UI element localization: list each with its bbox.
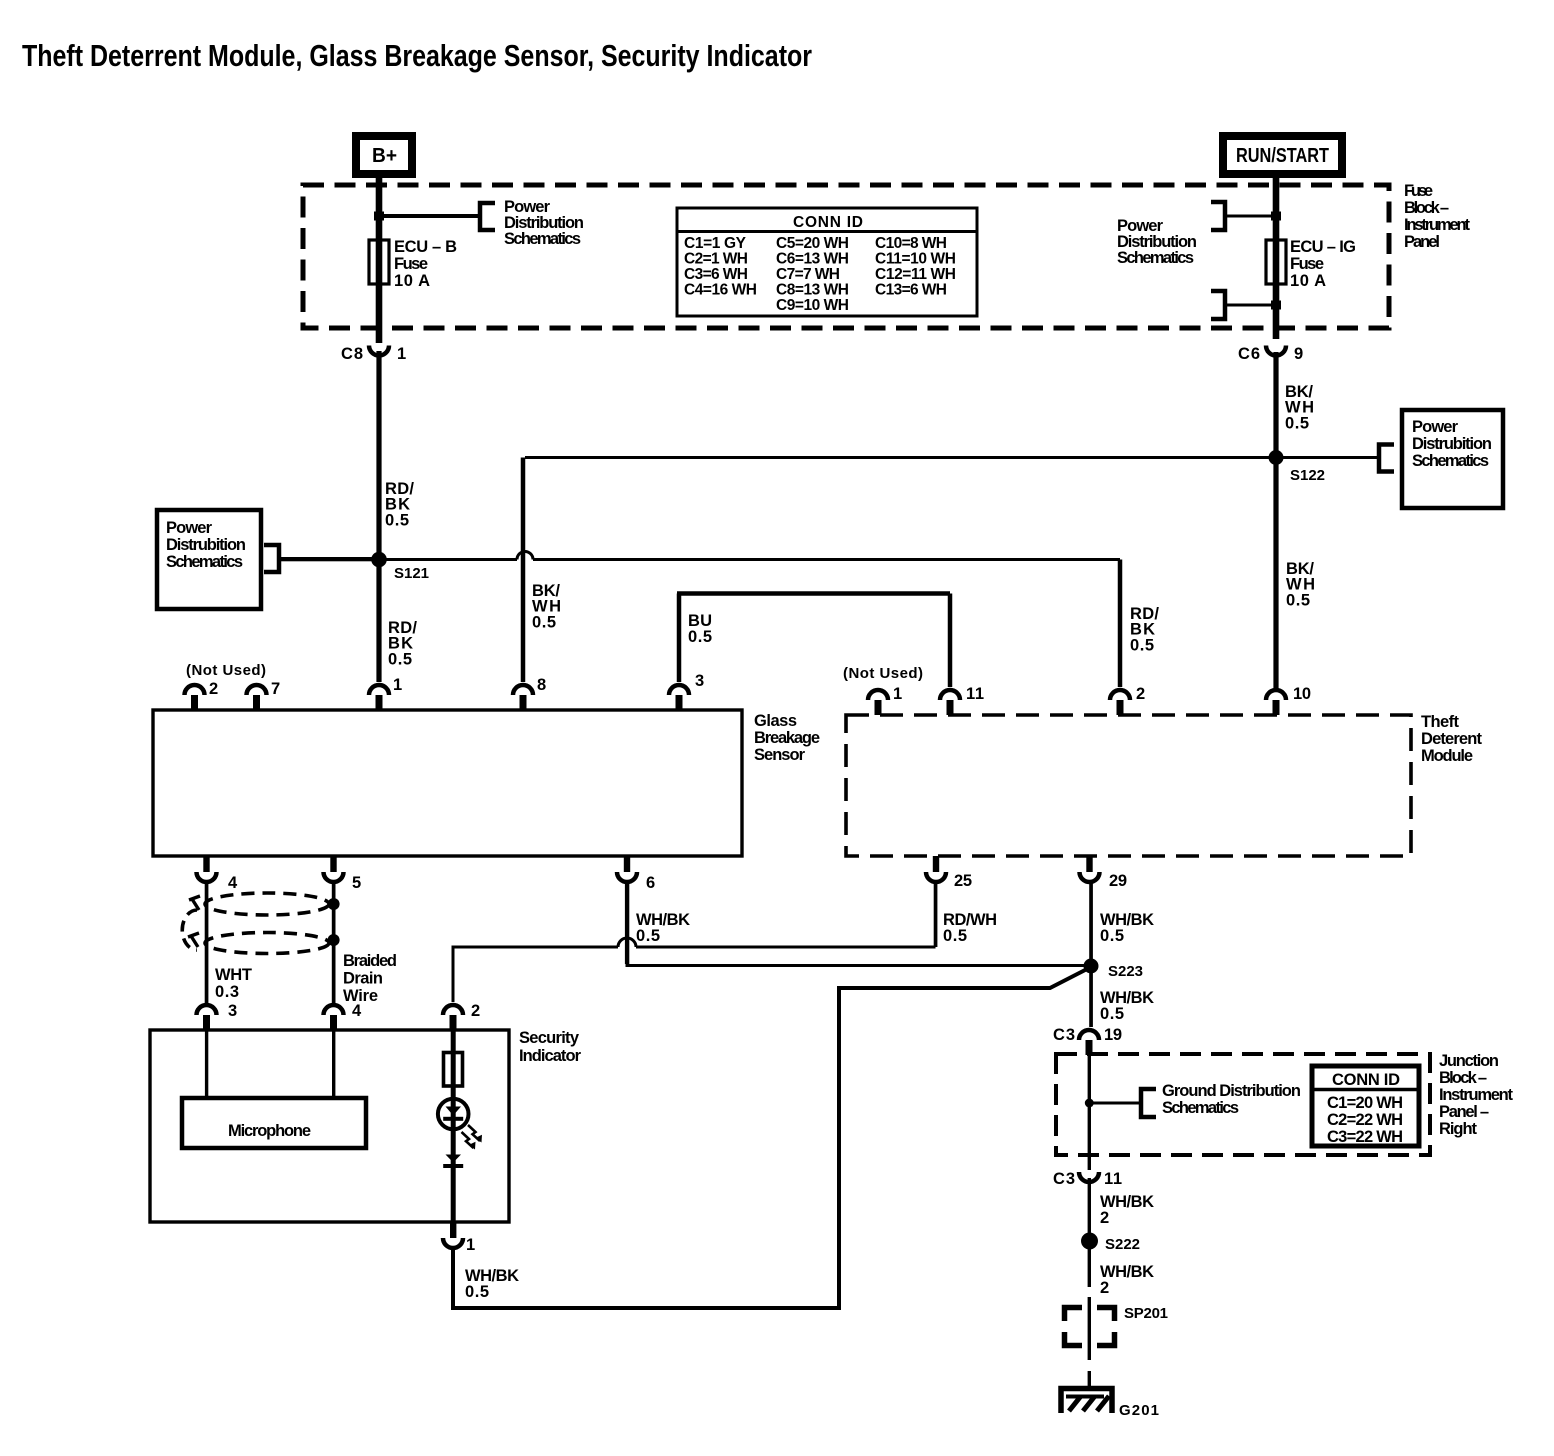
pin 4 security top: [324, 1002, 363, 1030]
svg-text:Microphone: Microphone: [228, 1122, 311, 1140]
svg-text:1: 1: [466, 1236, 475, 1254]
svg-text:C6=13 WH: C6=13 WH: [776, 251, 849, 268]
shield dashed loop upper: [205, 893, 329, 915]
wire RD/BK corner down to TDM pin 2: [1118, 560, 1123, 688]
wire hop arc at BK/WH crossing: [517, 552, 533, 560]
label RD/BK 0.5 (below S121): [388, 619, 417, 669]
svg-text:8: 8: [537, 676, 546, 694]
pin 6 glass bottom: [617, 856, 655, 892]
svg-text:C1=1 GY: C1=1 GY: [684, 235, 747, 252]
svg-text:B+: B+: [372, 145, 397, 167]
label power distribution schematics (top left): [504, 198, 584, 248]
svg-text:Theft: Theft: [1421, 713, 1460, 731]
pin 8 glass top: [513, 676, 546, 710]
svg-text:WHT: WHT: [215, 966, 252, 984]
svg-text:C11=10 WH: C11=10 WH: [875, 251, 956, 268]
svg-text:C8: C8: [341, 345, 363, 363]
svg-text:C13=6 WH: C13=6 WH: [875, 282, 947, 299]
conn id table (fuse block): [677, 208, 977, 316]
node junction dot in junction block: [1085, 1099, 1094, 1108]
wire B+ feed vertical: [376, 174, 383, 343]
svg-text:Fuse: Fuse: [1404, 182, 1433, 200]
connector C3 pin 11: [1053, 1170, 1122, 1188]
theft deterent module dashed box: [846, 715, 1411, 856]
wire BK/WH C6 to S122: [1273, 352, 1278, 458]
wire glass pin 4 to security pin 3: [205, 880, 209, 1003]
label ECU-B fuse 10A: [394, 238, 457, 290]
label WH/BK 0.5 (below S223): [1100, 989, 1154, 1023]
svg-text:11: 11: [1104, 1170, 1122, 1188]
label RD/BK 0.5 (above TDM pin 2): [1130, 605, 1159, 655]
svg-text:ECU – B: ECU – B: [394, 238, 457, 256]
wire security pin 2 through LED chain to pin 1: [451, 1030, 456, 1222]
svg-text:0.5: 0.5: [385, 512, 409, 530]
fuse block instrument panel dashed box: [303, 185, 1389, 328]
svg-text:1: 1: [893, 685, 902, 703]
label BK/WH 0.5 (above glass pin 8): [532, 582, 561, 632]
svg-text:Panel –: Panel –: [1439, 1103, 1489, 1121]
node S122 junction: [1269, 450, 1284, 465]
svg-text:C1=20 WH: C1=20 WH: [1327, 1094, 1403, 1112]
svg-text:0.3: 0.3: [215, 983, 239, 1001]
wire BU corner down to TDM pin 11: [948, 594, 953, 688]
shield dashed loop lower: [205, 933, 329, 954]
svg-text:1: 1: [397, 345, 406, 363]
svg-text:Schematics: Schematics: [1162, 1099, 1239, 1117]
svg-text:11: 11: [966, 685, 984, 703]
label braided drain wire: [343, 952, 397, 1005]
svg-text:0.5: 0.5: [388, 651, 412, 669]
microphone box: [182, 1098, 366, 1148]
svg-text:2: 2: [1136, 685, 1145, 703]
wire RD/BK S121 to glass pin 1: [376, 559, 381, 682]
wire BU horizontal to TDM pin 11 corner: [677, 591, 950, 596]
label junction block instrument panel right: [1439, 1052, 1514, 1138]
node S223 junction: [1084, 959, 1099, 974]
fuse ECU-B: [369, 240, 389, 284]
junction block dashed box: [1056, 1054, 1430, 1155]
label BU 0.5: [688, 612, 712, 646]
glass breakage sensor box: [153, 710, 742, 856]
svg-text:C3: C3: [1053, 1026, 1075, 1044]
svg-text:C2=1 WH: C2=1 WH: [684, 251, 748, 268]
svg-text:C12=11 WH: C12=11 WH: [875, 266, 956, 283]
svg-text:Block –: Block –: [1404, 199, 1449, 217]
node junction nub lower on RUN feed: [1271, 301, 1281, 310]
svg-text:Distrubition: Distrubition: [1412, 435, 1492, 453]
svg-text:Fuse: Fuse: [1290, 255, 1324, 273]
pin 4 glass bottom: [197, 856, 239, 892]
shield left dashed arc: [182, 910, 197, 950]
svg-text:0.5: 0.5: [1285, 415, 1309, 433]
svg-text:10 A: 10 A: [1290, 272, 1326, 290]
svg-text:Glass: Glass: [754, 712, 797, 730]
svg-text:S222: S222: [1105, 1236, 1140, 1253]
bracket power distrubition schematics (S122): [1379, 445, 1394, 472]
wire hop arc over pin 6 wire: [618, 938, 636, 947]
svg-text:CONN ID: CONN ID: [793, 214, 863, 231]
svg-text:Indicator: Indicator: [519, 1047, 582, 1065]
wire through SP201: [1088, 1297, 1091, 1360]
svg-text:Panel: Panel: [1404, 233, 1440, 251]
svg-text:Drain: Drain: [343, 970, 383, 988]
wire glass pin 5 to security pin 4: [332, 880, 336, 1003]
pin 3 glass top: [669, 672, 704, 710]
conn id table (junction block): [1312, 1066, 1419, 1146]
label ECU-IG fuse 10A: [1290, 238, 1356, 290]
label theft deterent module: [1421, 713, 1483, 765]
wire S122 to bracket (right): [1276, 456, 1379, 459]
svg-text:29: 29: [1109, 872, 1127, 890]
wire WH/BK glass pin 6 down: [625, 880, 629, 964]
connector C8 pin 1: [341, 345, 406, 363]
svg-text:5: 5: [352, 874, 361, 892]
pin 2 glass top (not used): [185, 680, 219, 710]
connector C3 pin 19: [1053, 1026, 1122, 1055]
fuse ECU-IG: [1266, 240, 1286, 284]
svg-text:C10=8 WH: C10=8 WH: [875, 235, 947, 252]
label power distribution schematics (top right): [1117, 217, 1197, 267]
svg-text:C9=10 WH: C9=10 WH: [776, 297, 849, 314]
node S222 splice: [1081, 1233, 1098, 1250]
svg-text:ECU – IG: ECU – IG: [1290, 238, 1356, 256]
wire bracket to S121: [279, 557, 380, 561]
label RD/BK 0.5 (above S121): [385, 480, 414, 530]
wire RD/WH horizontal with hop over pin6 wire: [453, 947, 936, 1002]
svg-text:0.5: 0.5: [943, 927, 967, 945]
svg-text:9: 9: [1294, 345, 1303, 363]
label WH/BK 2 (below S222): [1100, 1263, 1154, 1297]
power source RUN/START box: [1223, 136, 1342, 174]
pin 11 TDM top: [940, 685, 984, 715]
wire S122 horizontal to BK/WH corner: [525, 456, 1276, 459]
pin 3 security top: [197, 1002, 238, 1030]
svg-text:0.5: 0.5: [1100, 1005, 1124, 1023]
svg-text:C3=22 WH: C3=22 WH: [1327, 1128, 1403, 1146]
wire SP201 to ground: [1088, 1371, 1091, 1387]
svg-text:C6: C6: [1238, 345, 1260, 363]
svg-text:2: 2: [209, 680, 218, 698]
wire BU corner to glass pin 3: [677, 594, 682, 683]
svg-text:Schematics: Schematics: [1412, 452, 1489, 470]
svg-text:Instrument: Instrument: [1404, 216, 1471, 234]
svg-text:Schematics: Schematics: [504, 230, 581, 248]
svg-text:Braided: Braided: [343, 952, 397, 970]
svg-text:Deterent: Deterent: [1421, 730, 1483, 748]
label fuse block instrument panel: [1404, 182, 1471, 251]
label glass breakage sensor: [754, 712, 820, 764]
pin 2 TDM top: [1110, 685, 1145, 715]
pin 5 glass bottom: [324, 856, 362, 892]
svg-text:Schematics: Schematics: [1117, 249, 1194, 267]
pin 25 TDM bottom: [926, 856, 972, 890]
wire RUN/START feed vertical: [1273, 174, 1280, 339]
svg-text:Module: Module: [1421, 747, 1473, 765]
svg-text:4: 4: [228, 874, 238, 892]
security indicator box: [150, 1030, 509, 1222]
svg-text:Schematics: Schematics: [166, 553, 243, 571]
svg-text:Power: Power: [166, 519, 213, 537]
wire B+ to power distribution bracket: [379, 214, 480, 218]
label BK/WH 0.5 (below C6): [1285, 383, 1314, 433]
svg-text:0.5: 0.5: [465, 1283, 489, 1301]
svg-text:Breakage: Breakage: [754, 729, 820, 747]
svg-text:S122: S122: [1290, 467, 1325, 484]
pin 1 security bottom: [443, 1222, 475, 1254]
svg-text:G201: G201: [1119, 1402, 1159, 1419]
svg-text:2: 2: [471, 1002, 480, 1020]
label ground distribution schematics: [1162, 1082, 1301, 1117]
svg-text:C3: C3: [1053, 1170, 1075, 1188]
svg-text:6: 6: [646, 874, 655, 892]
wire diagonal from S223: [453, 968, 1089, 1308]
svg-text:0.5: 0.5: [1130, 637, 1154, 655]
diode symbol in security indicator: [443, 1155, 463, 1169]
power source B+ box: [356, 136, 412, 174]
svg-text:SP201: SP201: [1124, 1305, 1168, 1322]
wire S222 down (segment): [1088, 1249, 1091, 1287]
svg-text:0.5: 0.5: [532, 614, 556, 632]
svg-text:Right: Right: [1439, 1120, 1478, 1138]
svg-text:Theft Deterrent Module, Glass: Theft Deterrent Module, Glass Breakage S…: [22, 38, 812, 73]
svg-text:Security: Security: [519, 1029, 580, 1047]
bracket power distribution upper (right): [1211, 202, 1225, 230]
svg-text:C7=7 WH: C7=7 WH: [776, 266, 840, 283]
svg-text:25: 25: [954, 872, 972, 890]
wire RD/WH TDM pin 25 down: [934, 881, 938, 947]
svg-text:(Not Used): (Not Used): [186, 662, 266, 679]
label security indicator: [519, 1029, 582, 1065]
svg-text:S121: S121: [394, 565, 429, 582]
svg-text:4: 4: [352, 1002, 362, 1020]
svg-text:0.5: 0.5: [1100, 927, 1124, 945]
svg-text:Distrubition: Distrubition: [166, 536, 246, 554]
svg-text:1: 1: [393, 676, 402, 694]
node junction nub upper on RUN feed: [1271, 212, 1281, 221]
pin 7 glass top (not used): [247, 680, 281, 710]
svg-text:Junction: Junction: [1439, 1052, 1499, 1070]
resistor in security indicator: [444, 1053, 463, 1087]
svg-text:Block –: Block –: [1439, 1069, 1487, 1087]
shield braid end zigzag lower: [188, 933, 199, 947]
svg-text:(Not Used): (Not Used): [843, 665, 923, 682]
svg-text:Power: Power: [1412, 418, 1459, 436]
label WH/BK 0.5 (below security pin 1): [465, 1267, 519, 1301]
svg-text:C4=16 WH: C4=16 WH: [684, 282, 757, 299]
label WH/BK 2 (above S222): [1100, 1193, 1154, 1227]
pin 2 security top: [443, 1002, 480, 1030]
svg-text:C5=20 WH: C5=20 WH: [776, 235, 849, 252]
connector C6 pin 9: [1238, 345, 1303, 363]
node junction nub on B+ feed: [374, 212, 384, 221]
pin 29 TDM bottom: [1080, 856, 1128, 890]
svg-text:Instrument: Instrument: [1439, 1086, 1514, 1104]
wire RD/BK C8 to S121: [376, 351, 381, 560]
wire C3 pin 11 to S222: [1088, 1178, 1091, 1234]
label WHT 0.3: [215, 966, 252, 1001]
svg-text:S223: S223: [1108, 963, 1143, 980]
svg-text:CONN ID: CONN ID: [1332, 1071, 1400, 1089]
bracket ground distribution schematics: [1141, 1089, 1156, 1117]
wire lower bracket to RUN feed: [1227, 304, 1276, 307]
label WH/BK 0.5 (below pin 6): [636, 911, 690, 945]
wire security pin 3 to microphone: [205, 1030, 208, 1098]
wire inside junction block: [1088, 1054, 1091, 1170]
svg-text:Fuse: Fuse: [394, 255, 428, 273]
splice SP201 symbol: [1065, 1308, 1115, 1346]
wire junction dot to ground bracket: [1089, 1102, 1141, 1105]
svg-text:C2=22 WH: C2=22 WH: [1327, 1111, 1403, 1129]
bracket power distribution schematics (left): [480, 203, 495, 230]
box power distrubition schematics (right): [1402, 410, 1503, 508]
box power distrubition schematics (left, S121): [157, 510, 261, 609]
wire S121 right with hop over BK/WH: [379, 558, 1120, 561]
svg-text:10 A: 10 A: [394, 272, 430, 290]
svg-text:2: 2: [1100, 1209, 1109, 1227]
ground G201 symbol: [1061, 1389, 1112, 1414]
label BK/WH 0.5 (above pin 10): [1286, 560, 1315, 610]
svg-text:0.5: 0.5: [636, 927, 660, 945]
svg-text:C8=13 WH: C8=13 WH: [776, 282, 849, 299]
wire upper bracket to RUN feed: [1227, 215, 1276, 218]
wire BK/WH vertical (corner to glass pin 8): [521, 458, 526, 683]
svg-text:7: 7: [271, 680, 280, 698]
wire WH/BK pin6 corner to S223: [627, 945, 1091, 966]
pin 1 glass top: [369, 676, 402, 710]
LED indicator symbol: [438, 1099, 482, 1150]
svg-text:19: 19: [1104, 1026, 1122, 1044]
node shield drain dot upper: [328, 898, 340, 910]
svg-text:2: 2: [1100, 1279, 1109, 1297]
svg-text:0.5: 0.5: [688, 628, 712, 646]
svg-text:RUN/START: RUN/START: [1236, 145, 1329, 167]
label WH/BK 0.5 (below pin 29): [1100, 911, 1154, 945]
svg-text:Sensor: Sensor: [754, 746, 806, 764]
svg-text:10: 10: [1293, 685, 1311, 703]
bracket power distribution lower (right): [1211, 291, 1225, 319]
shield braid end zigzag upper: [189, 896, 200, 910]
wire BK/WH S122 to pin 10: [1273, 457, 1278, 688]
bracket power distrubition (S121): [264, 545, 279, 572]
pin 1 TDM top (not used): [868, 685, 902, 715]
svg-text:0.5: 0.5: [1286, 592, 1310, 610]
node shield drain dot lower: [328, 934, 340, 946]
svg-text:3: 3: [228, 1002, 237, 1020]
svg-text:3: 3: [695, 672, 704, 690]
svg-text:C3=6 WH: C3=6 WH: [684, 266, 748, 283]
label RD/WH 0.5: [943, 911, 997, 945]
pin 10 TDM top: [1266, 685, 1311, 715]
svg-text:Ground Distribution: Ground Distribution: [1162, 1082, 1301, 1100]
wire WH/BK TDM pin 29 down to C3: [1089, 881, 1093, 1027]
wire security pin 4 to microphone: [332, 1030, 335, 1098]
node S121 junction: [371, 552, 387, 568]
